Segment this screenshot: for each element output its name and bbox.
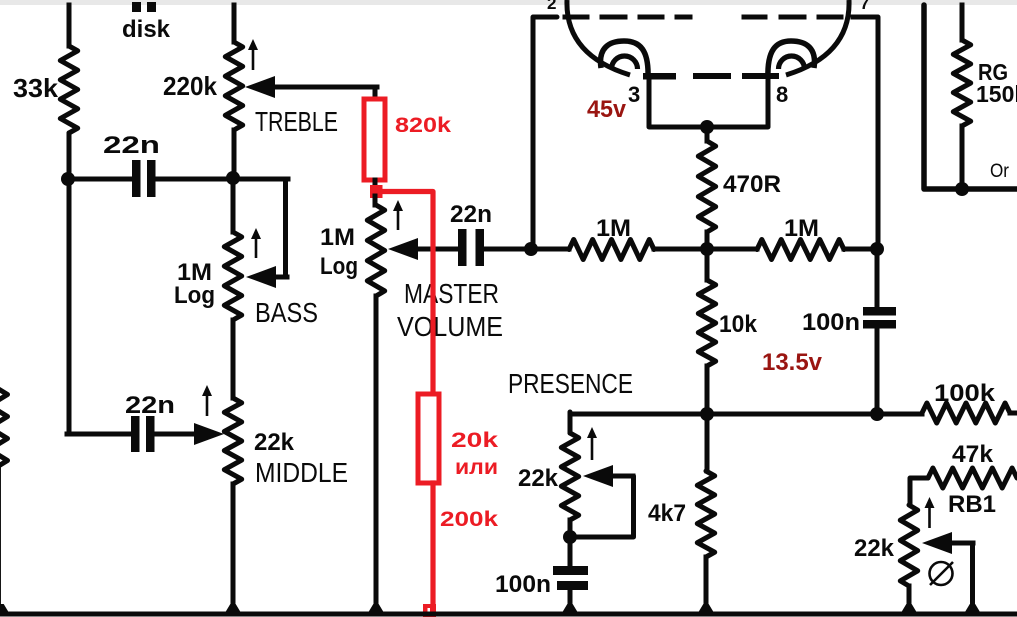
node RG junction — [955, 182, 969, 196]
wire 1M right to pin7 wire — [844, 247, 878, 252]
capacitor 22n (middle feed) — [131, 416, 155, 452]
label 4k7 — [648, 500, 686, 527]
wire 47k left corner — [910, 478, 928, 505]
node junction 33k / bass cap — [61, 172, 75, 186]
label BASS — [255, 297, 318, 328]
node presence bottom junction — [563, 530, 577, 544]
label 22k (middle) — [254, 429, 295, 456]
wire treble pot bottom — [232, 130, 237, 179]
potentiometer MASTER wiper arrow — [388, 238, 458, 260]
wire red jumper right+down to 20k box — [380, 192, 433, 395]
svg-text:Log: Log — [174, 282, 215, 309]
wire master pot top stub — [373, 196, 378, 205]
wire bass cap to treble-bottom junction — [155, 177, 288, 182]
svg-text:200k: 200k — [440, 508, 498, 531]
tube cathode right (inner) — [779, 56, 805, 69]
wire RG top lead — [960, 5, 965, 40]
label 1M left — [596, 215, 631, 242]
wire middle pot bottom to bus — [231, 484, 236, 610]
resistor 4k7 — [697, 471, 714, 557]
label 10k — [719, 311, 758, 338]
svg-text:PRESENCE: PRESENCE — [508, 368, 633, 399]
label VOLUME — [397, 311, 503, 342]
pin 7 label — [860, 0, 869, 13]
resistor 1M (right) — [757, 240, 844, 260]
svg-text:BASS: BASS — [255, 297, 318, 328]
svg-text:1M: 1M — [596, 215, 631, 242]
tube top dashed line (left) — [565, 15, 690, 20]
wire bass bottom to middle top — [231, 320, 236, 398]
svg-text:22k: 22k — [518, 465, 559, 492]
svg-text:470R: 470R — [723, 171, 781, 198]
label 1M right — [784, 215, 819, 242]
resistor 47k — [928, 468, 1017, 488]
svg-text:20k: 20k — [451, 429, 498, 452]
tube cathode lead bar left — [643, 73, 676, 80]
wire red 20k bottom to bus — [430, 483, 435, 606]
wire feedback row — [570, 412, 922, 417]
flare master-bus — [369, 604, 384, 612]
svg-text:7: 7 — [860, 0, 869, 13]
label 22n middle cap — [125, 392, 175, 419]
flare 4k7-bus — [699, 604, 714, 612]
label 13.5v — [762, 349, 823, 376]
resistor RG 150k — [953, 40, 970, 126]
wire junction to bass cap — [66, 177, 132, 182]
wire left-edge resistor to bus — [0, 466, 1, 610]
resistor 20k/200k (red mod) — [418, 394, 439, 483]
wire 100k to edge — [1010, 411, 1017, 416]
label 22n master cap — [450, 201, 492, 228]
wire master pot bottom to bus — [374, 296, 379, 610]
wire pin7 corner down-right — [856, 17, 878, 249]
potentiometer BASS wiper arrow — [246, 266, 287, 288]
wire 1M left to center node — [654, 247, 707, 252]
label 20k — [451, 429, 498, 452]
arrow treble rotation — [248, 39, 258, 70]
resistor 100k — [922, 403, 1010, 423]
wire node to 1M left — [531, 247, 569, 252]
svg-text:MASTER: MASTER — [404, 278, 499, 309]
wire RG left rail — [924, 5, 1017, 189]
label 100n presence cap — [495, 571, 551, 598]
svg-text:820k: 820k — [395, 114, 451, 137]
capacitor 100n (bias) — [863, 307, 896, 329]
potentiometer TREBLE wiper arrow — [245, 76, 377, 98]
potentiometer RB1 22k — [900, 505, 917, 586]
wire 4k7 bottom to bus — [704, 557, 709, 610]
label или — [455, 456, 498, 479]
wire RB1 pot bottom to bus — [907, 586, 912, 610]
wire center node to 1M right — [707, 247, 757, 252]
label 33k — [13, 73, 59, 103]
wire presence cap to bus — [568, 590, 573, 610]
label 220k — [163, 71, 218, 101]
wire presence wiper loop — [572, 476, 634, 537]
potentiometer PRESENCE wiper arrow — [583, 465, 633, 487]
node junction treble bottom / bass top — [226, 171, 240, 185]
tube top dashed line (right) — [744, 15, 866, 20]
svg-text:22k: 22k — [254, 429, 295, 456]
label TREBLE — [255, 106, 338, 137]
node red bus terminal — [423, 604, 436, 617]
svg-text:8: 8 — [776, 82, 788, 107]
svg-text:47k: 47k — [952, 441, 994, 468]
capacitor 22n (master out) — [458, 229, 484, 266]
node 100n/feedback junction — [870, 407, 884, 421]
wire pin2 corner down-left — [533, 17, 557, 249]
potentiometer MIDDLE wiper arrow — [194, 423, 224, 445]
potentiometer MIDDLE 22k — [224, 398, 241, 484]
wire feedback node to 4k7 — [705, 414, 710, 471]
wire treble junction to bass pot — [231, 179, 236, 232]
svg-text:100n: 100n — [495, 571, 551, 598]
svg-text:33k: 33k — [13, 73, 59, 103]
flare RB1wiper-bus — [965, 604, 980, 612]
svg-text:RB1: RB1 — [948, 491, 996, 518]
node master-out junction — [524, 242, 538, 256]
svg-text:disk: disk — [122, 16, 171, 43]
node cathode junction — [700, 120, 714, 134]
svg-text:22n: 22n — [125, 392, 175, 419]
svg-text:22n: 22n — [103, 132, 160, 159]
wire middle cap to wiper arrow — [154, 432, 200, 437]
label Log (master) — [320, 253, 358, 280]
wire treble wiper to 820k — [373, 87, 378, 98]
wire 100n to feedback row — [875, 328, 880, 414]
label disk — [122, 16, 171, 43]
tube envelope left arc — [567, 0, 630, 75]
capacitor 100n (presence) — [553, 566, 588, 590]
flare middle-bus — [226, 604, 241, 612]
wire presence pot bottom — [568, 520, 573, 566]
node red junction below 820k — [370, 185, 383, 198]
ground bus line — [0, 612, 1017, 617]
potentiometer TREBLE 220k — [225, 42, 242, 130]
resistor 10k — [698, 280, 715, 366]
wire 470R bottom — [705, 232, 710, 251]
node bias center junction — [700, 242, 714, 256]
label Or — [990, 161, 1010, 182]
svg-text:или: или — [455, 456, 498, 479]
arrow presence rotation — [587, 427, 597, 460]
tube cathode left (outer) — [601, 41, 649, 78]
svg-text:150k: 150k — [976, 81, 1017, 107]
svg-text:2: 2 — [547, 0, 556, 13]
svg-text:4k7: 4k7 — [648, 500, 686, 527]
capacitor C-disk lead stubs (cut off at top) — [132, 2, 156, 12]
wire 33k bottom to middle-cap corner — [67, 133, 72, 434]
label MIDDLE — [255, 457, 348, 488]
wire RB1 wiper down to bus — [970, 543, 975, 610]
tube envelope right arc — [786, 0, 849, 75]
svg-text:10k: 10k — [719, 311, 758, 338]
svg-text:22n: 22n — [450, 201, 492, 228]
svg-text:45v: 45v — [587, 96, 627, 123]
svg-text:100k: 100k — [934, 380, 996, 407]
tube grid dashed line — [696, 73, 776, 79]
label 47k — [952, 441, 994, 468]
label 1M (bass) — [177, 259, 212, 286]
wire 10k to feedback node — [705, 366, 710, 414]
svg-text:22k: 22k — [854, 535, 895, 562]
pin 8 label — [776, 82, 788, 107]
capacitor 22n (bass feed) — [132, 160, 156, 197]
label MASTER — [404, 278, 499, 309]
svg-text:220k: 220k — [163, 71, 218, 101]
label 470R — [723, 171, 781, 198]
potentiometer BASS 1M Log — [224, 232, 241, 320]
wire presence pot top — [568, 412, 573, 433]
svg-text:MIDDLE: MIDDLE — [255, 457, 348, 488]
label 820k — [395, 114, 451, 137]
flare leftedge-bus — [0, 604, 9, 612]
tube cathode right (outer) — [768, 41, 815, 78]
wire pin3 down — [649, 78, 768, 127]
wire treble pot top lead — [232, 5, 237, 42]
svg-text:1M: 1M — [784, 215, 819, 242]
label RG — [978, 59, 1008, 85]
node pin7/1M junction — [870, 242, 884, 256]
arrow bass rotation — [251, 228, 261, 258]
svg-text:TREBLE: TREBLE — [255, 106, 338, 137]
svg-text:100n: 100n — [802, 309, 860, 336]
resistor (partial, left edge) — [0, 389, 8, 466]
label 200k — [440, 508, 498, 531]
label 45v — [587, 96, 627, 123]
svg-text:Or: Or — [990, 161, 1010, 182]
label RB1 — [948, 491, 996, 518]
svg-text:13.5v: 13.5v — [762, 349, 823, 376]
pin 3 label — [628, 82, 640, 107]
arrow RB1 rotation — [925, 497, 935, 528]
label 150k — [976, 81, 1017, 107]
wire 33k corner to middle cap — [67, 432, 131, 437]
potentiometer MASTER 1M Log — [367, 205, 384, 296]
label 22n bass cap — [103, 132, 160, 159]
flare RB1-bus — [902, 604, 917, 612]
symbol phase/trimmer — [930, 562, 954, 585]
svg-text:1M: 1M — [320, 224, 355, 251]
label 1M (master) — [320, 224, 355, 251]
wire bass wiper riser — [283, 179, 288, 277]
resistor 1M (left) — [569, 240, 654, 260]
flare presence-bus — [563, 604, 578, 612]
node feedback junction — [700, 407, 714, 421]
resistor 820k (red mod) — [364, 99, 385, 180]
label 22k presence — [518, 465, 559, 492]
svg-text:VOLUME: VOLUME — [397, 311, 503, 342]
wire RG bottom — [960, 126, 965, 189]
resistor 33k — [60, 46, 77, 133]
potentiometer RB1 wiper arrow — [922, 532, 973, 554]
wire master cap to node — [482, 247, 531, 252]
wire pin7 node to 100n — [875, 249, 880, 308]
arrow master rotation — [393, 200, 403, 230]
wire 33k top lead — [67, 5, 72, 46]
label Log (bass) — [174, 282, 215, 309]
label PRESENCE — [508, 368, 633, 399]
pin 2 label — [547, 0, 556, 13]
potentiometer PRESENCE 22k — [561, 433, 578, 520]
label 22k RB1 — [854, 535, 895, 562]
tube cathode left (inner) — [612, 56, 638, 69]
wire center node to 10k — [705, 249, 710, 280]
label 100k — [934, 380, 996, 407]
label 100n bias cap — [802, 309, 860, 336]
svg-text:3: 3 — [628, 82, 640, 107]
wire cathode node to 470R — [705, 127, 710, 141]
wire 820k bottom stub — [373, 180, 378, 198]
svg-text:Log: Log — [320, 253, 358, 280]
resistor 470R — [698, 141, 715, 232]
arrow middle rotation — [202, 385, 212, 416]
